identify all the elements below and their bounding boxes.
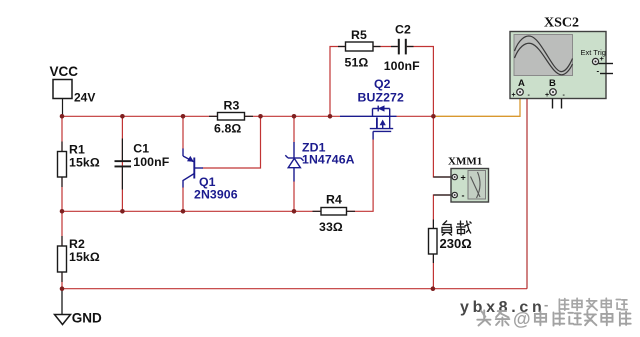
svg-text:R2: R2: [69, 237, 85, 251]
wire: XMM1 minus to load: [433, 195, 452, 289]
svg-text:15kΩ: 15kΩ: [69, 156, 100, 170]
label R1: [69, 143, 85, 157]
XMM1 plus terminal: [452, 174, 457, 179]
label R5: [351, 28, 367, 42]
lead: XMM1 black input leads: [433, 177, 452, 195]
value label 24V: [74, 91, 95, 105]
svg-text:XMM1: XMM1: [448, 156, 482, 168]
lead: R1 pins: [61, 142, 63, 188]
wire: ZD1 top lead wire: [293, 116, 295, 142]
svg-text:1N4746A: 1N4746A: [302, 153, 355, 167]
wire: bottom ground rail: [62, 288, 527, 290]
label C2: [395, 23, 411, 37]
svg-text:51Ω: 51Ω: [345, 55, 369, 69]
svg-text:VCC: VCC: [50, 64, 79, 79]
value label 51Ohm: [345, 55, 369, 69]
wire: middle rail R4 to Q2 source corner: [347, 139, 374, 211]
svg-text:-: -: [544, 297, 548, 312]
svg-text:6.8Ω: 6.8Ω: [214, 122, 241, 136]
svg-text:B: B: [549, 78, 556, 89]
wire: snubber R5 to C2: [373, 46, 398, 48]
wire: snubber left vertical: [330, 47, 346, 117]
svg-text:Q2: Q2: [374, 77, 391, 91]
label Q1: [199, 175, 216, 189]
XSC2 Ext Trig terminal: [592, 58, 598, 64]
svg-text:+: +: [461, 173, 466, 183]
svg-text:A: A: [518, 78, 525, 89]
watermark gray chinese line 2 start (toutiao): [479, 312, 511, 327]
junction dots bottom rail: [60, 286, 436, 291]
svg-text:+: +: [600, 54, 605, 63]
transistor Q1 symbol: [183, 149, 203, 188]
lead: R4 pins: [313, 210, 356, 212]
label XMM1: [448, 156, 482, 168]
svg-text:100nF: 100nF: [384, 59, 420, 73]
resistor R4 body: [321, 208, 347, 216]
watermark gray chinese line 1 (yingjian gongchengshi): [561, 299, 629, 311]
watermark ybx8.cn: [460, 297, 548, 316]
svg-text:100nF: 100nF: [133, 155, 169, 169]
wire: Q1 emitter branch vertical: [182, 116, 184, 149]
value label 1N4746A: [302, 153, 355, 167]
value label 100nF C1: [133, 155, 169, 169]
value label 15kOhm R1: [69, 156, 100, 170]
svg-text:GND: GND: [72, 311, 102, 326]
wire: left vertical rail x=62: [61, 116, 63, 288]
wire: middle rail left: [62, 210, 321, 212]
lead: R2 pins: [61, 236, 63, 282]
wire: node to XMM1 plus: [433, 116, 452, 177]
label fuzai (load) chinese glyphs: [442, 221, 472, 236]
value label 33Ohm: [319, 220, 343, 234]
wire: C1 branch vertical: [121, 116, 123, 211]
svg-text:-: -: [597, 67, 600, 76]
svg-text:24V: 24V: [74, 91, 95, 105]
watermark gray chinese line 2 rest (didaji... dianzi): [536, 313, 632, 327]
lead: R5 pins: [338, 46, 381, 48]
label XSC2: [544, 16, 579, 31]
svg-text:230Ω: 230Ω: [440, 236, 472, 251]
svg-text:R5: R5: [351, 28, 367, 42]
svg-text:15kΩ: 15kΩ: [69, 250, 100, 264]
wire: Q1 collector to middle rail: [182, 187, 184, 211]
svg-text:2N3906: 2N3906: [194, 188, 238, 202]
XSC2 channel B terminal: [550, 89, 557, 96]
XMM1 minus terminal: [452, 192, 457, 197]
svg-text:R4: R4: [326, 193, 342, 207]
wire: top rail left (VCC node): [62, 115, 218, 117]
value label 2N3906: [194, 188, 238, 202]
ground symbol GND: [55, 289, 71, 325]
label ZD1: [302, 140, 326, 154]
svg-text:R3: R3: [224, 99, 240, 113]
svg-text:BUZ272: BUZ272: [358, 91, 404, 105]
instrument XSC2 oscilloscope box: [510, 32, 613, 100]
svg-text:R1: R1: [69, 143, 85, 157]
value label 230Ohm: [440, 236, 472, 251]
junction dots middle rail: [60, 209, 297, 214]
value label BUZ272: [358, 91, 404, 105]
load resistor body (fuzai 230 ohm): [429, 229, 438, 255]
resistor R3 body: [218, 113, 245, 121]
junction dots top rail: [60, 114, 436, 119]
lead: R3 pins: [209, 115, 253, 117]
resistor R1 body: [58, 152, 67, 178]
svg-text:+: +: [512, 92, 516, 99]
instrument XMM1 multimeter box: [451, 169, 489, 203]
zener diode ZD1 symbol: [285, 142, 303, 182]
power symbol VCC box: [53, 80, 72, 99]
lead: C1 pins: [121, 139, 123, 190]
XMM1 meter face: [468, 171, 486, 200]
XSC2 waveform trace B: [515, 43, 573, 75]
svg-text:XSC2: XSC2: [544, 16, 579, 31]
label R3: [224, 99, 240, 113]
XSC2 screen: [514, 35, 573, 76]
label VCC: [50, 64, 79, 79]
mosfet Q2 symbol: [340, 106, 397, 140]
lead: VCC source lead: [62, 99, 64, 117]
watermark at-sign: [513, 309, 532, 330]
capacitor C1 plates: [115, 160, 132, 167]
resistor R2 body: [58, 246, 67, 272]
label GND: [72, 311, 102, 326]
label Q2: [374, 77, 391, 91]
wire: snubber right vertical: [407, 47, 434, 117]
lead: C2 pins: [391, 46, 414, 48]
scope channel B unconnected pin stubs: [553, 99, 562, 109]
svg-text:33Ω: 33Ω: [319, 220, 343, 234]
wire: ZD1 bottom lead wire: [293, 181, 295, 211]
label R2: [69, 237, 85, 251]
svg-text:C1: C1: [133, 142, 149, 156]
wire: scope A minus down to ground rail: [526, 99, 528, 289]
value label 15kOhm R2: [69, 250, 100, 264]
wire: Q1 base wire to rail junction: [203, 116, 261, 168]
wire: top rail between R3 and Q2 gate: [245, 115, 341, 117]
resistor R5 body: [346, 42, 374, 51]
XSC2 Ext Trig pin stubs: [599, 63, 613, 65]
svg-text:-: -: [462, 191, 465, 201]
svg-text:C2: C2: [395, 23, 411, 37]
wire: Q2 drain to node at x=433: [397, 115, 434, 117]
value label 100nF C2: [384, 59, 420, 73]
lead: load resistor pins: [432, 220, 434, 264]
label R4: [326, 193, 342, 207]
capacitor C2 plates: [398, 39, 407, 55]
XSC2 channel A terminal: [517, 89, 524, 96]
value label 6.8Ohm: [214, 122, 241, 136]
svg-text:+: +: [545, 92, 549, 99]
svg-text:@: @: [513, 309, 531, 329]
wire: orange scope A plus wire: [433, 99, 520, 117]
XSC2 waveform trace A: [515, 36, 573, 72]
label C1: [133, 142, 149, 156]
